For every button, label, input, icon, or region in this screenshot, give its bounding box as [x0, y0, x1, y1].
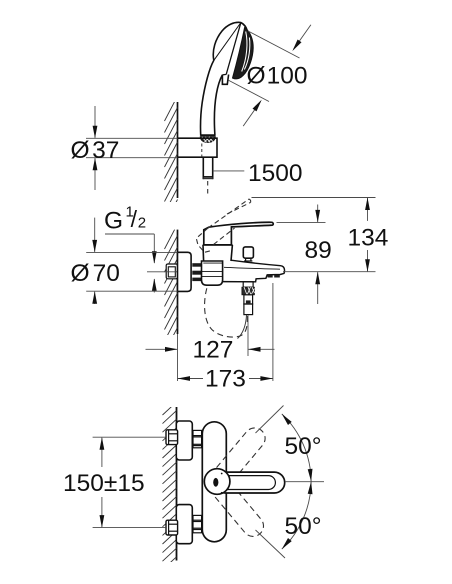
- threaded connector bottom: [193, 515, 202, 532]
- svg-text:50°: 50°: [285, 513, 322, 540]
- wall (middle section, with hatching): [165, 224, 178, 353]
- label G 1/2: [104, 204, 157, 293]
- flange Ø70: [178, 252, 192, 291]
- svg-text:/: /: [131, 206, 138, 232]
- lever handle (closed position): [204, 222, 273, 245]
- shower hose: [203, 157, 212, 196]
- dimension Ø37 (bracket flange): [71, 106, 178, 190]
- angle line -50 bottom: [256, 530, 286, 558]
- threaded connector top: [193, 430, 202, 447]
- svg-text:Ø37: Ø37: [71, 137, 120, 164]
- svg-text:G: G: [104, 208, 123, 235]
- svg-text:2: 2: [138, 215, 146, 232]
- label 1500 (hose length leader): [213, 160, 303, 187]
- wall (bottom section, with hatching): [163, 402, 177, 570]
- dimension 150±15: [63, 437, 165, 527]
- diverter knob: [243, 247, 253, 261]
- dimension 134: [252, 198, 389, 272]
- wall extension line (to 127/173 dims): [177, 334, 179, 381]
- svg-text:127: 127: [193, 336, 234, 363]
- svg-text:150±15: 150±15: [63, 470, 145, 497]
- lever handle open position (dashed): [196, 199, 250, 252]
- svg-text:89: 89: [305, 237, 332, 264]
- hex nut top: [166, 430, 178, 445]
- hose nut (crosshatched): [200, 136, 215, 143]
- angle arc top with arrows: [282, 414, 313, 482]
- wall (top section, with hatching): [165, 96, 178, 225]
- mixer body barrel: [202, 261, 223, 285]
- escutcheon top: [176, 421, 192, 460]
- cartridge housing: [203, 245, 233, 261]
- union nut rings: [192, 263, 201, 281]
- pivot circle: [204, 469, 230, 495]
- svg-text:Ø100: Ø100: [247, 63, 308, 90]
- dimension Ø100 (shower head): [228, 25, 311, 126]
- lever (top view): [215, 472, 285, 493]
- wall bracket: [178, 138, 218, 157]
- angle reference line (horizontal): [285, 481, 324, 483]
- escutcheon bottom: [176, 505, 192, 544]
- mixer body (top view capsule): [202, 422, 226, 542]
- svg-text:1500: 1500: [248, 160, 303, 187]
- lever open +50 deg (dashed): [210, 424, 270, 489]
- angle arc bottom with arrows: [282, 482, 313, 550]
- hose loop (dashed): [205, 288, 248, 337]
- svg-text:134: 134: [348, 225, 389, 252]
- angle line +50 top: [256, 406, 284, 434]
- hex nut bottom: [166, 520, 178, 535]
- dimension 173: [178, 283, 273, 392]
- svg-text:50°: 50°: [285, 433, 322, 460]
- svg-text:173: 173: [205, 365, 246, 392]
- lever open -50 deg (dashed): [208, 475, 268, 540]
- hose outlet / diverter pull: [238, 282, 255, 339]
- supply nipple G1/2: [147, 264, 178, 279]
- dimension 89: [277, 205, 376, 305]
- spout: [223, 260, 285, 282]
- shower head with spray face: [201, 22, 254, 135]
- svg-text:Ø70: Ø70: [71, 260, 120, 287]
- dimension Ø70: [71, 218, 178, 304]
- dimension 127: [146, 315, 275, 363]
